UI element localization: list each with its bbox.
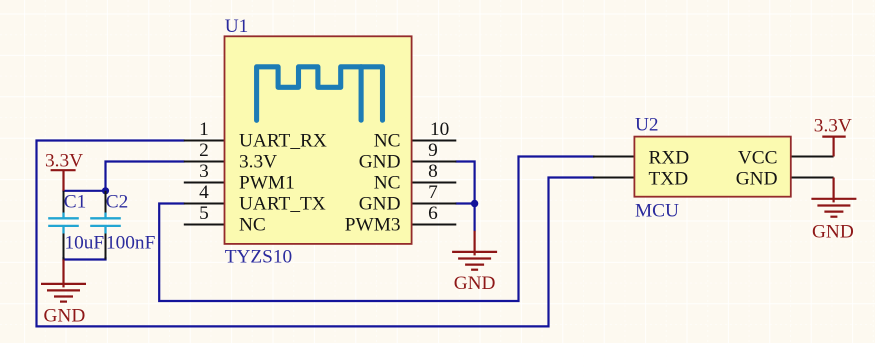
svg-text:GND: GND bbox=[812, 222, 854, 243]
svg-text:6: 6 bbox=[428, 203, 438, 224]
svg-text:VCC: VCC bbox=[738, 147, 778, 168]
svg-text:TXD: TXD bbox=[649, 168, 689, 189]
svg-text:U1: U1 bbox=[225, 16, 249, 37]
svg-text:7: 7 bbox=[428, 182, 438, 203]
svg-text:NC: NC bbox=[374, 130, 401, 151]
svg-text:NC: NC bbox=[239, 214, 266, 235]
svg-text:NC: NC bbox=[374, 172, 401, 193]
svg-text:TYZS10: TYZS10 bbox=[225, 247, 292, 268]
svg-text:10uF: 10uF bbox=[65, 232, 105, 253]
svg-text:GND: GND bbox=[44, 305, 86, 326]
svg-text:C1: C1 bbox=[64, 192, 87, 213]
svg-text:1: 1 bbox=[199, 119, 209, 140]
svg-text:GND: GND bbox=[736, 168, 778, 189]
svg-text:RXD: RXD bbox=[649, 147, 690, 168]
svg-text:GND: GND bbox=[454, 273, 496, 294]
svg-text:UART_RX: UART_RX bbox=[239, 130, 327, 151]
svg-text:C2: C2 bbox=[106, 192, 129, 213]
svg-text:9: 9 bbox=[428, 140, 438, 161]
svg-text:3.3V: 3.3V bbox=[814, 116, 852, 137]
svg-text:5: 5 bbox=[199, 203, 209, 224]
svg-text:4: 4 bbox=[199, 182, 209, 203]
svg-text:U2: U2 bbox=[635, 114, 659, 135]
svg-text:2: 2 bbox=[199, 140, 209, 161]
svg-text:PWM1: PWM1 bbox=[239, 172, 295, 193]
svg-text:3: 3 bbox=[199, 161, 209, 182]
svg-text:PWM3: PWM3 bbox=[345, 214, 401, 235]
svg-text:GND: GND bbox=[359, 193, 401, 214]
svg-text:8: 8 bbox=[428, 161, 438, 182]
svg-text:MCU: MCU bbox=[635, 201, 679, 222]
svg-text:UART_TX: UART_TX bbox=[239, 193, 326, 214]
svg-text:GND: GND bbox=[359, 151, 401, 172]
svg-text:3.3V: 3.3V bbox=[45, 150, 83, 171]
svg-text:3.3V: 3.3V bbox=[239, 151, 277, 172]
svg-text:10: 10 bbox=[430, 119, 449, 140]
svg-text:100nF: 100nF bbox=[106, 232, 156, 253]
